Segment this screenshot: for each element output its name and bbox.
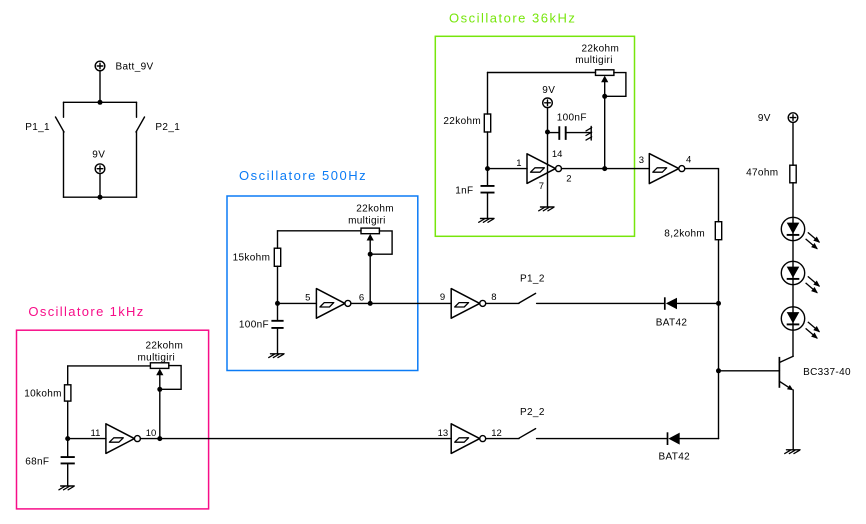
wire battery bottom [64,196,137,198]
svg-text:Oscillatore 500Hz: Oscillatore 500Hz [239,168,367,183]
capacitor 68nF [61,439,75,486]
box Oscillatore 1kHz [17,330,209,509]
svg-text:Batt_9V: Batt_9V [116,62,154,73]
svg-text:100nF: 100nF [557,113,587,124]
trimmer 22kohm multigiri (36kHz) [596,70,626,97]
inverter U4A (9-8) [451,289,486,319]
LED D3 [781,217,819,248]
wire wiper down (36kHz) [604,96,606,168]
svg-text:P1_1: P1_1 [25,122,50,133]
svg-text:3: 3 [639,155,644,166]
switch P1_1 [56,117,65,132]
wire input U3A [68,438,106,440]
svg-text:22kohm: 22kohm [581,44,619,55]
resistor 8,2kohm [715,222,721,240]
svg-text:P2_1: P2_1 [155,122,180,133]
wire U4B out [486,438,519,440]
svg-text:9V: 9V [92,150,105,161]
ground (emitter Q1) [785,450,800,454]
junction trimmer wiper (1kHz) [157,387,162,392]
resistor R2 15kohm [274,231,280,304]
svg-text:5: 5 [305,292,310,303]
junction bus base [716,368,721,373]
svg-text:2: 2 [566,173,571,184]
switch P2_1 [136,117,145,132]
junction trimmer wiper (36kHz) [602,94,607,99]
svg-text:P2_2: P2_2 [520,407,545,418]
wire wiper down (500Hz) [369,254,371,303]
ground (68nF) [59,486,74,490]
wire U1B out to bus [685,169,719,222]
svg-text:10kohm: 10kohm [24,388,62,399]
junction trimmer wiper (500Hz) [368,252,373,257]
wire P1_2 to D1 [537,302,665,304]
svg-text:multigiri: multigiri [575,55,613,66]
wire P2_2 to D2 [537,438,668,440]
junction wiper output (36kHz) [602,166,607,171]
earth (100nF 36kHz) [586,127,592,141]
power port 9V (LED) [788,113,798,123]
junction bus row1 [716,301,721,306]
wire P2_1 lower [136,132,138,198]
switch P1_2 [519,293,536,303]
transistor Q1 BC337-40 [779,356,793,450]
ground (1nF) [479,219,494,223]
switch P2_2 [519,429,536,439]
svg-text:10: 10 [146,428,157,439]
svg-text:8: 8 [491,292,496,303]
svg-text:100nF: 100nF [239,319,269,330]
LED D4 [781,261,819,292]
svg-text:22kohm: 22kohm [443,116,481,127]
svg-text:Oscillatore 36kHz: Oscillatore 36kHz [449,11,576,26]
ground (pin7) [539,207,554,211]
svg-text:68nF: 68nF [25,457,49,468]
svg-text:9: 9 [440,292,445,303]
wire P1_1 upper [63,102,65,117]
wire R3 to trimmer [68,365,151,367]
resistor R3 10kohm [65,366,71,439]
inverter U1B [649,154,685,184]
wire R1 to trimmer [488,72,596,74]
wire P1_1 lower [63,132,65,198]
diode D1 BAT42 [665,297,719,310]
junction input node (36kHz) [485,166,490,171]
wire U3A out [140,438,451,440]
svg-text:1nF: 1nF [455,186,473,197]
svg-text:1: 1 [516,158,521,169]
wire base [719,370,780,372]
wire battery top [64,101,137,103]
inverter U4B (13-12) [451,424,486,454]
svg-text:13: 13 [438,428,449,439]
wire LED chain [792,183,794,357]
svg-text:Oscillatore 1kHz: Oscillatore 1kHz [28,304,144,319]
svg-text:multigiri: multigiri [137,352,175,363]
svg-text:7: 7 [539,181,544,192]
junction out (500Hz) [368,301,373,306]
svg-text:4: 4 [686,154,691,165]
svg-text:6: 6 [359,292,364,303]
resistor R4 47ohm [790,165,796,183]
box Oscillatore 500Hz [227,196,418,371]
svg-text:14: 14 [552,149,563,160]
wire U1A out [562,168,650,170]
svg-text:22kohm: 22kohm [145,340,183,351]
inverter U1A (36kHz) [527,154,562,184]
junction out (1kHz) [157,436,162,441]
svg-text:8,2kohm: 8,2kohm [664,228,705,239]
svg-text:9V: 9V [758,113,771,124]
capacitor 1nF [481,169,495,219]
wire 9V to R4 [792,122,794,165]
diode D2 BAT42 [668,432,719,445]
wire input U2A [278,302,317,304]
junction battery bottom [98,195,103,200]
trimmer 22kohm multigiri (500Hz) [361,228,392,254]
svg-text:12: 12 [491,428,502,439]
box Oscillatore 36kHz [435,36,634,236]
power port 9V battery [95,164,105,197]
junction input node (500Hz) [275,301,280,306]
svg-text:11: 11 [91,428,101,439]
capacitor 100nF (500Hz) [271,303,283,353]
junction 9V 100nF (36kHz) [545,130,550,135]
wire wiper down (1kHz) [159,389,161,438]
wire bus [718,240,720,439]
junction input node (1kHz) [65,436,70,441]
wire power pin14 pin7 [547,132,549,207]
svg-text:15kohm: 15kohm [233,253,271,264]
junction battery top [98,100,103,105]
svg-text:BC337-40: BC337-40 [803,367,851,378]
wire U4A out [486,302,519,304]
wire input U1A [488,168,528,170]
wire R2 to trimmer [278,230,362,232]
svg-text:22kohm: 22kohm [356,204,394,215]
inverter U2A (500Hz) [316,289,351,319]
power port 9V (36kHz) [543,98,553,132]
wire U2A out [351,302,451,304]
wire P2_1 upper [136,102,138,117]
svg-text:multigiri: multigiri [348,216,386,227]
svg-text:9V: 9V [542,85,555,96]
svg-text:47ohm: 47ohm [746,167,778,178]
LED D5 [781,307,819,338]
svg-text:BAT42: BAT42 [659,452,691,463]
capacitor 100nF (36kHz) [548,126,592,140]
trimmer 22kohm multigiri (1kHz) [150,363,181,390]
svg-text:BAT42: BAT42 [656,318,688,329]
power port Batt_9V [95,61,105,102]
resistor R1 22kohm [484,73,490,169]
svg-text:P1_2: P1_2 [520,274,545,285]
ground (100nF 500Hz) [269,354,284,358]
inverter U3A (1kHz) [106,424,140,454]
